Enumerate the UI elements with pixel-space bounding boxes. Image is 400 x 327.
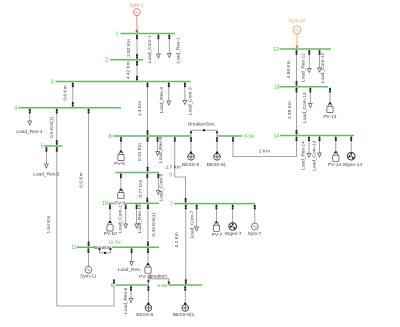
svg-text:4.42 Km: 4.42 Km (125, 61, 131, 79)
bus 6 left section (111, 283, 149, 289)
svg-text:BESS-8(.: BESS-8(. (207, 162, 227, 168)
PV unit PV-14 (328, 136, 341, 169)
load Load_Res-8 (156, 136, 164, 163)
svg-text:Wgen-14: Wgen-14 (343, 162, 363, 168)
PV unit PV-13 (323, 87, 336, 120)
svg-text:2: 2 (105, 58, 108, 64)
load Load_Com-10 (117, 202, 127, 233)
breaker Breaker/. at bus 6 (147, 274, 169, 285)
bus 1 (116, 31, 175, 37)
svg-text:PV-11: PV-11 (139, 274, 152, 280)
svg-text:Load_Res-1: Load_Res-1 (175, 37, 181, 63)
svg-text:9: 9 (169, 172, 172, 178)
bus 5 (41, 144, 63, 150)
svg-text:1.7 Km: 1.7 Km (166, 164, 181, 170)
svg-text:3: 3 (51, 79, 54, 85)
svg-text:PV-9: PV-9 (115, 200, 126, 206)
wire Line 8-9 (0.32 Km) (137, 136, 149, 173)
svg-text:PV-8: PV-8 (114, 161, 125, 167)
svg-text:4.89 Km: 4.89 Km (286, 60, 292, 78)
svg-text:Load_Com-3: Load_Com-3 (188, 87, 194, 115)
svg-text:Load_Com-9: Load_Com-9 (158, 173, 164, 201)
svg-text:0.2 Km: 0.2 Km (174, 232, 180, 247)
wire Line 1-2 (2.82 Km) (126, 34, 138, 60)
load Load_Res-4 (16, 108, 42, 136)
svg-text:0.33 Km(1): 0.33 Km(1) (151, 212, 157, 236)
bus 8 left section (109, 134, 191, 140)
svg-text:Load_Com-13: Load_Com-13 (302, 92, 308, 123)
bus 9 (115, 172, 172, 178)
wire Line 3-8 (1.3 Km) (137, 82, 148, 137)
svg-text:Sym-7: Sym-7 (248, 231, 262, 237)
bus 4 (14, 106, 121, 112)
bus 8 right section 8-Se (218, 134, 255, 140)
svg-text:6: 6 (111, 283, 114, 289)
bus 11 left section (71, 245, 95, 251)
svg-text:0.32 Km: 0.32 Km (137, 143, 143, 161)
svg-text:0.6 Km: 0.6 Km (62, 85, 68, 100)
wind generator Wgen-7 (225, 204, 242, 238)
svg-text:Load_Com-14: Load_Com-14 (312, 140, 318, 171)
svg-text:12: 12 (273, 47, 279, 53)
svg-text:14: 14 (274, 133, 280, 139)
load Load_Res-14 (300, 136, 311, 170)
bus 7 (170, 201, 255, 207)
svg-text:PV-10: PV-10 (104, 231, 117, 237)
svg-text:Load_Res-6: Load_Res-6 (123, 287, 129, 313)
svg-text:BESS-6(1.: BESS-6(1. (173, 312, 196, 318)
svg-text:PV-13: PV-13 (323, 114, 336, 120)
wire Line 12-13 (4.89 Km) (286, 49, 297, 87)
svg-text:13: 13 (274, 85, 280, 91)
svg-text:2.99 Km: 2.99 Km (287, 101, 293, 119)
wire Line 4-5 (0.6 Km(1)) (49, 108, 58, 146)
svg-text:0.6 Km(1): 0.6 Km(1) (49, 117, 55, 138)
svg-text:8-Se: 8-Se (244, 134, 254, 140)
bus 13 (274, 85, 328, 91)
PV unit PV-8 (114, 136, 125, 167)
load Load_Com-3 (183, 82, 194, 116)
svg-text:8: 8 (109, 134, 112, 140)
svg-text:4: 4 (14, 106, 17, 112)
BESS unit BESS-6(1) (173, 285, 196, 318)
svg-text:Load_Res.: Load_Res. (118, 267, 141, 273)
svg-text:0.77 Km: 0.77 Km (138, 180, 144, 198)
svg-text:Load_Res-4: Load_Res-4 (16, 129, 42, 135)
synchronous machine Sym-7 (248, 204, 262, 238)
svg-text:Load_Com-7: Load_Com-7 (190, 210, 196, 238)
svg-text:PV-7: PV-7 (212, 232, 223, 238)
PV unit PV-10 (104, 203, 117, 237)
load Load_Res-6 (123, 285, 133, 314)
PV unit PV-11 (139, 247, 152, 280)
svg-text:6-Se: 6-Se (157, 283, 167, 289)
bus 6 right section 6-Se (157, 283, 202, 289)
load Load_Res-10 (135, 203, 143, 233)
svg-text:Load_Res-12: Load_Res-12 (300, 53, 306, 82)
load Load_Com-7 (190, 204, 199, 239)
svg-text:5: 5 (41, 144, 44, 150)
PV unit PV-7 (212, 204, 223, 239)
svg-text:Load_Res-8: Load_Res-8 (158, 137, 164, 163)
svg-text:11: 11 (71, 245, 76, 251)
wire Line 13-14 (2.99 Km) (287, 87, 297, 136)
wire Line 2-3 (4.42 Km) (125, 60, 138, 82)
svg-text:2 Km: 2 Km (259, 148, 270, 154)
svg-text:Sym-1: Sym-1 (130, 2, 144, 8)
external grid Sym-12 (289, 18, 306, 48)
svg-text:Load_Com-10: Load_Com-10 (117, 202, 123, 233)
bus 12 (273, 47, 331, 53)
svg-text:Load_Res-5: Load_Res-5 (33, 172, 59, 178)
external grid Sym-1 (130, 2, 144, 33)
synchronous machine Sym-11 (80, 247, 97, 279)
svg-text:BESS-8: BESS-8 (182, 162, 199, 168)
svg-text:Breaker/.: Breaker/. (149, 274, 168, 280)
svg-text:Wgen-7: Wgen-7 (225, 231, 242, 237)
wire Line 8-14 (2 Km) (232, 136, 297, 157)
load Load_Com-13 (302, 87, 312, 123)
svg-text:1.3 Km: 1.3 Km (137, 101, 143, 116)
wind generator Wgen-14 (343, 136, 363, 169)
bus 11 right section 11-Se (108, 239, 159, 247)
wire Line 7-8 (1.7 Km) (166, 136, 187, 204)
svg-text:PV-14: PV-14 (328, 162, 341, 168)
load Load_Com-12 (318, 49, 326, 83)
svg-text:Load_Com-1: Load_Com-1 (147, 35, 153, 63)
breaker Breaker/Swi.. at bus 8 (188, 121, 218, 136)
wire Line 6-7 (0.2 Km) (174, 204, 187, 285)
svg-text:Sym-12: Sym-12 (289, 18, 306, 24)
svg-text:Breaker/Swi..: Breaker/Swi.. (188, 121, 217, 127)
wire Line 10-11 (0.33 Km(1)) (147, 203, 157, 247)
load Load_Res-3 (159, 82, 171, 114)
svg-text:Load_Res-3: Load_Res-3 (159, 87, 165, 113)
svg-text:1: 1 (116, 31, 119, 37)
bus 2 (105, 58, 143, 64)
svg-text:BESS-6: BESS-6 (136, 312, 153, 318)
bus 3 (51, 79, 191, 85)
load Load_Com-1 (147, 34, 160, 64)
breaker Breaker. at bus 11 (94, 245, 112, 254)
svg-text:7: 7 (170, 201, 173, 207)
load Load_Res-5 (33, 146, 59, 178)
wire Line 3-4 (0.6 Km) (62, 82, 73, 108)
BESS unit BESS-8 (182, 136, 199, 168)
BESS unit BESS-6 (136, 285, 153, 318)
load Load_Res-11 (118, 247, 141, 273)
wire Line 9-10 (0.77 Km) (138, 173, 148, 204)
svg-text:1.54 Km: 1.54 Km (46, 216, 52, 234)
svg-text:Load_Res-14: Load_Res-14 (300, 141, 306, 170)
load Load_Res-1 (167, 34, 181, 64)
svg-text:10: 10 (102, 201, 108, 207)
load Load_Com-9 (156, 173, 164, 202)
bus 14 (274, 133, 354, 139)
svg-text:2.82 Km: 2.82 Km (126, 39, 132, 57)
svg-text:Load_Com-12: Load_Com-12 (320, 52, 326, 83)
PV unit PV-9 (115, 173, 126, 207)
wire Line 4-11 (0.5 Km) (79, 108, 90, 248)
load Load_Com-14 (312, 136, 322, 171)
svg-text:0.5 Km: 0.5 Km (79, 172, 85, 187)
bus 10 (102, 201, 159, 207)
svg-text:Breaker.: Breaker. (94, 245, 112, 251)
svg-text:Sym-11: Sym-11 (80, 274, 97, 280)
svg-text:Load_Res-10: Load_Res-10 (137, 204, 143, 233)
load Load_Res-12 (300, 49, 311, 82)
wire Line 5-6 (1.54 Km) (46, 146, 115, 306)
BESS unit BESS-8(1) (207, 136, 227, 168)
svg-text:11-Se: 11-Se (108, 239, 121, 245)
